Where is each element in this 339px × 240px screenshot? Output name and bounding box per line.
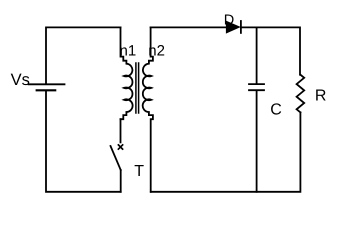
diode D triangle (227, 22, 240, 33)
transformer secondary winding n2 (143, 27, 153, 191)
svg-text:C: C (270, 101, 282, 118)
switch contact x mark (118, 145, 122, 149)
transformer core line left (135, 63, 137, 113)
battery Vs short plate (37, 89, 56, 91)
switch blade (111, 146, 121, 170)
resistor R zigzag (297, 75, 305, 113)
diode D cathode bar (240, 21, 242, 33)
wire diode cathode to top-right corner and down to resistor (241, 27, 300, 74)
svg-text:T: T (134, 163, 144, 180)
svg-text:n2: n2 (148, 43, 165, 60)
switch T top lead (120, 119, 122, 142)
switch bottom lead (120, 170, 122, 192)
capacitor C bottom lead (256, 91, 258, 192)
transformer core line right (138, 63, 140, 113)
capacitor C bottom plate (249, 89, 264, 91)
wire resistor bottom to bottom-right rail to secondary bottom (151, 112, 301, 191)
svg-text:D: D (224, 13, 234, 29)
wire top-left: battery plus to primary top (46, 27, 121, 83)
capacitor C top lead (256, 27, 258, 83)
svg-text:Vs: Vs (11, 71, 30, 89)
transformer primary winding n1 (121, 27, 133, 119)
battery Vs long plate (29, 83, 65, 85)
wire battery minus to bottom-left rail to switch bottom (46, 91, 121, 192)
svg-text:n1: n1 (120, 43, 137, 60)
capacitor C top plate (249, 83, 264, 85)
svg-text:R: R (315, 87, 327, 104)
wire secondary top to diode anode (151, 26, 227, 28)
